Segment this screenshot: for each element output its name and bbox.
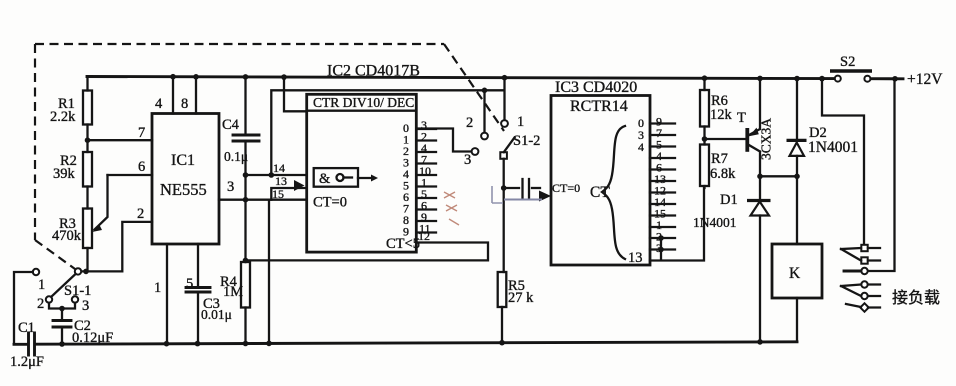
svg-text:IC3 CD4020: IC3 CD4020 bbox=[555, 79, 637, 96]
wire pin 5 bbox=[197, 244, 199, 288]
resistor R6 bbox=[700, 78, 733, 139]
node joined outputs bbox=[658, 235, 664, 241]
diode D2 1N4001 bbox=[787, 79, 858, 177]
svg-text:5: 5 bbox=[186, 276, 193, 292]
clock dynamic input triangle bbox=[294, 180, 305, 191]
wire top +12V supply rail bbox=[87, 77, 903, 79]
svg-text:470k: 470k bbox=[52, 228, 82, 244]
wire pin 4 bbox=[172, 77, 174, 114]
node relay top bbox=[794, 174, 800, 180]
svg-text:接负载: 接负载 bbox=[892, 289, 940, 307]
op-amp IC1 NE555 box bbox=[152, 114, 219, 245]
wire IC2 pin13 line bbox=[271, 188, 306, 200]
IC3 output stubs bbox=[650, 124, 675, 250]
resistor R4 bbox=[220, 262, 250, 344]
node S1-1 pole junction bbox=[83, 269, 89, 275]
IC2 output digits 0-9 bbox=[403, 121, 409, 239]
svg-text:CTR DIV10/ DEC: CTR DIV10/ DEC bbox=[313, 95, 414, 110]
pushbutton S2 bbox=[830, 54, 872, 82]
svg-text:1: 1 bbox=[154, 280, 161, 296]
svg-text:1.2μF: 1.2μF bbox=[10, 354, 44, 370]
IC2 output stubs bbox=[416, 129, 436, 233]
svg-text:2: 2 bbox=[466, 115, 473, 131]
svg-text:S1-2: S1-2 bbox=[513, 133, 540, 149]
svg-text:S2: S2 bbox=[840, 54, 855, 70]
counter IC2 CD4017 box bbox=[307, 94, 417, 252]
svg-text:39k: 39k bbox=[53, 166, 76, 182]
node C4 / pin14 line bbox=[243, 172, 249, 178]
svg-text:D1: D1 bbox=[720, 192, 738, 208]
svg-text:2: 2 bbox=[137, 206, 144, 222]
svg-text:13: 13 bbox=[628, 250, 643, 266]
svg-text:6.8k: 6.8k bbox=[710, 166, 736, 182]
resistor R7 bbox=[700, 139, 736, 188]
svg-text:1: 1 bbox=[517, 114, 524, 130]
node CT branch bbox=[501, 185, 507, 191]
wire pole to NE555 pin 2 bbox=[82, 222, 153, 272]
IC2 output pin numbers bbox=[419, 118, 431, 236]
wire collector to relay node bbox=[760, 175, 797, 177]
capacitor C1 (inline in ground rail) bbox=[10, 320, 44, 370]
svg-text:12k: 12k bbox=[710, 107, 733, 123]
potentiometer R3 bbox=[52, 175, 108, 248]
svg-text:C4: C4 bbox=[222, 117, 240, 133]
node bbox=[269, 172, 275, 178]
node base divider bbox=[702, 136, 708, 142]
svg-text:7: 7 bbox=[138, 125, 145, 141]
diode D1 1N4001 bbox=[693, 176, 771, 342]
svg-text:2: 2 bbox=[37, 296, 44, 312]
svg-text:IC2 CD4017B: IC2 CD4017B bbox=[327, 63, 420, 80]
svg-text:+12V: +12V bbox=[907, 71, 943, 88]
svg-text:9: 9 bbox=[403, 225, 409, 239]
node pin3 line bbox=[243, 197, 249, 203]
svg-text:0.01μ: 0.01μ bbox=[201, 307, 232, 322]
wire joined outputs to R7 bbox=[650, 188, 704, 261]
svg-text:1M: 1M bbox=[223, 284, 243, 300]
wire R3 bottom to S1-1 pole bbox=[86, 248, 88, 271]
svg-text:0.1μ: 0.1μ bbox=[224, 149, 248, 164]
switch S1-2 bbox=[464, 114, 540, 168]
wire clock line to S1-2 bbox=[271, 90, 504, 175]
ganged switch linkage dashed line S1 bbox=[35, 44, 504, 269]
wire down to R4 bbox=[244, 200, 246, 262]
wire output 0 to S1-2 terminal 3 bbox=[416, 129, 471, 152]
svg-text:K: K bbox=[789, 265, 801, 282]
svg-text:3: 3 bbox=[464, 152, 471, 168]
counter IC3 CD4020 box bbox=[551, 96, 650, 267]
wire S1-2 terminal 1 to rail bbox=[503, 78, 505, 120]
IC3 output pin numbers bbox=[654, 115, 666, 256]
wire S1-2 terminal 2 up bbox=[483, 90, 485, 132]
capacitor C4 bbox=[222, 77, 259, 175]
wire to IC3 clock with coupling marks bbox=[492, 179, 551, 203]
wire S1-1 terminals 2,3 common bbox=[49, 303, 75, 321]
wire NE555 pin 6 bbox=[108, 174, 153, 176]
wire bottom ground rail bbox=[14, 342, 797, 345]
svg-text:T: T bbox=[737, 110, 746, 126]
wire S1-1 terminal 1 to C1 bbox=[14, 272, 33, 343]
wire pin 8 bbox=[195, 77, 197, 114]
svg-text:14: 14 bbox=[273, 161, 285, 175]
node R4 top bbox=[243, 258, 249, 264]
svg-text:&: & bbox=[319, 171, 331, 187]
wire rail stub to IC2 top pin bbox=[284, 77, 307, 111]
relay contacts to load bbox=[841, 245, 880, 312]
svg-text:3: 3 bbox=[82, 298, 89, 314]
resistor R1 bbox=[50, 77, 92, 141]
wire pin 12 CT&lt;5 feedback to R4 node bbox=[246, 243, 489, 261]
svg-text:1N4001: 1N4001 bbox=[693, 215, 737, 230]
svg-text:R7: R7 bbox=[711, 151, 728, 167]
svg-text:NE555: NE555 bbox=[160, 180, 207, 199]
node R1/R2/pin7 junction bbox=[85, 137, 91, 143]
svg-text:15: 15 bbox=[272, 187, 284, 201]
svg-text:CT=0: CT=0 bbox=[313, 195, 347, 211]
svg-text:IC1: IC1 bbox=[171, 152, 195, 169]
wire C4 to pin3 line bbox=[244, 175, 246, 200]
svg-text:C1: C1 bbox=[18, 320, 35, 336]
capacitor C2 bbox=[53, 318, 113, 346]
clock gate symbol bbox=[314, 168, 378, 187]
wire pin 3 output bbox=[219, 199, 307, 201]
wire S2 node to relay contact 1 bbox=[822, 79, 864, 245]
svg-text:27 k: 27 k bbox=[508, 290, 534, 306]
wire S1-2 pole down to R5 bbox=[503, 159, 505, 272]
svg-text:3: 3 bbox=[227, 179, 234, 195]
svg-text:6: 6 bbox=[138, 159, 145, 175]
svg-text:2.2k: 2.2k bbox=[50, 109, 76, 125]
svg-text:4: 4 bbox=[638, 140, 644, 154]
resistor R5 bbox=[498, 272, 534, 343]
svg-text:1N4001: 1N4001 bbox=[808, 139, 858, 156]
svg-text:S1-1: S1-1 bbox=[64, 283, 91, 299]
svg-text:0.12μF: 0.12μF bbox=[72, 330, 113, 346]
svg-text:4: 4 bbox=[155, 96, 163, 112]
wire right branch to contact common bbox=[868, 79, 895, 271]
svg-text:1: 1 bbox=[38, 277, 45, 293]
wire to NE555 pin 7 bbox=[88, 139, 153, 141]
resistor R2 bbox=[53, 140, 92, 208]
svg-text:3CX3A: 3CX3A bbox=[759, 118, 774, 160]
wire IC2 pin14 line bbox=[246, 174, 307, 176]
transistor T 3CX3A bbox=[705, 78, 774, 176]
svg-text:12: 12 bbox=[418, 229, 430, 243]
node collector bbox=[757, 174, 763, 180]
relay coil K bbox=[772, 176, 822, 341]
wire ground stub bbox=[268, 200, 270, 344]
node bbox=[59, 306, 65, 312]
node junction dots on top rail bbox=[170, 74, 898, 82]
svg-text:RCTR14: RCTR14 bbox=[570, 98, 628, 115]
node S1-2 term2 branch bbox=[482, 88, 488, 94]
capacitor C3 bbox=[186, 288, 232, 344]
svg-text:13: 13 bbox=[275, 174, 287, 188]
stray red marks bbox=[444, 192, 459, 225]
wire pin 1 to ground bbox=[166, 244, 168, 344]
node junction dots on bottom rail bbox=[59, 339, 763, 347]
switch S1-1 bbox=[33, 268, 92, 314]
svg-text:8: 8 bbox=[181, 96, 188, 112]
svg-text:CT=0: CT=0 bbox=[552, 181, 580, 195]
